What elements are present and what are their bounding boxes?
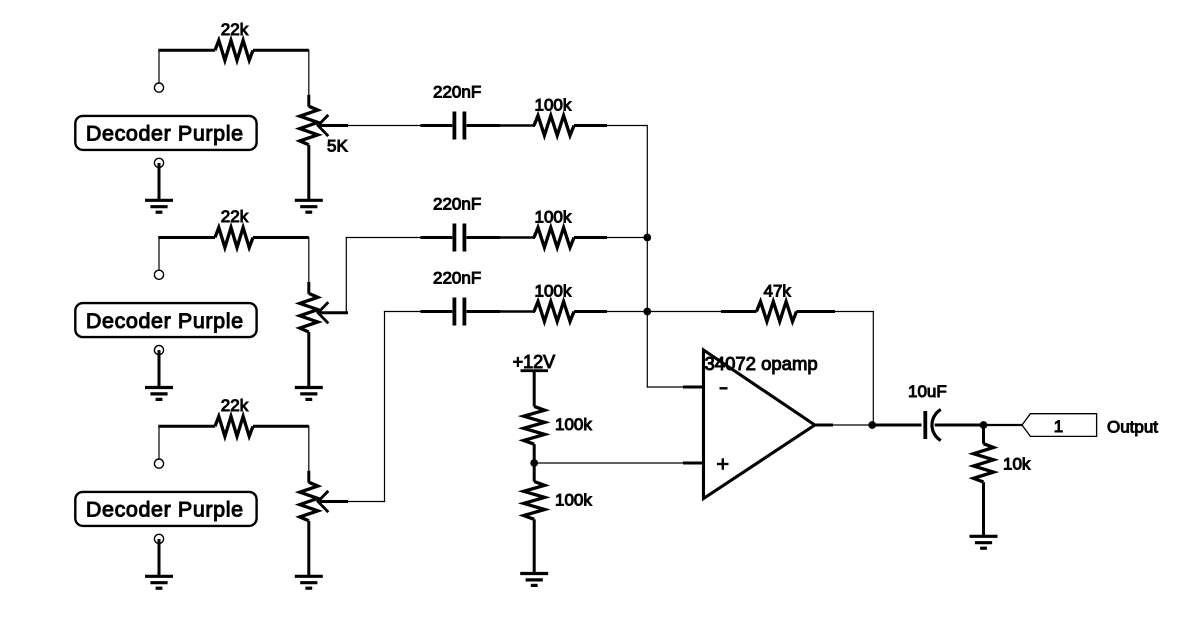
terminal circle ch3 top — [154, 459, 163, 468]
label U1 minus — [720, 387, 728, 389]
svg-text:100k: 100k — [535, 281, 572, 300]
wire pot VR1 to ground — [307, 145, 310, 201]
resistor R6 100k — [534, 302, 608, 322]
wire wiper1 to C1 — [348, 125, 421, 127]
label +12V — [513, 352, 556, 372]
wire R7 to output node — [835, 312, 873, 426]
ground R10 — [970, 536, 998, 548]
wire C2 to R5 — [500, 236, 534, 238]
ground decoder3 — [145, 576, 173, 588]
label C3 value 220nF — [433, 269, 481, 288]
decoder block 1 — [75, 116, 256, 150]
wire wiper2 riser — [346, 238, 420, 313]
wire C1 to R4 — [500, 124, 534, 126]
svg-text:220nF: 220nF — [433, 83, 481, 102]
svg-text:Decoder Purple: Decoder Purple — [86, 122, 244, 146]
wire pot VR3 to ground — [307, 521, 310, 577]
svg-text:47k: 47k — [764, 282, 792, 301]
wire R4 to bus — [607, 125, 647, 127]
svg-text:220nF: 220nF — [433, 195, 481, 214]
label R3 value 22k — [221, 396, 249, 415]
svg-text:1: 1 — [1054, 417, 1063, 436]
wire wiper VR2 — [318, 311, 349, 314]
resistor R9 100k — [524, 482, 545, 520]
junction node bus row2 — [643, 234, 651, 242]
wire node to connector — [984, 424, 1023, 426]
wire R8 to node — [533, 444, 536, 463]
wire wiper VR1 — [318, 124, 349, 127]
wire bias node to plus input — [534, 462, 683, 464]
decoder block 2 — [75, 303, 256, 337]
wire U1 output to node — [833, 424, 872, 426]
wire node to R10 — [982, 425, 985, 444]
wire input stub ch1 — [158, 50, 160, 83]
wire decoder2 to ground — [158, 350, 161, 387]
label R1 value 22k — [221, 20, 249, 39]
svg-text:100k: 100k — [555, 490, 592, 509]
label C2 value 220nF — [433, 195, 481, 214]
wire R9 to ground — [533, 519, 536, 573]
resistor R10 10k — [974, 444, 994, 482]
label R6 value 100k — [535, 281, 572, 300]
svg-text:100k: 100k — [535, 207, 572, 226]
wire node to R7 — [647, 311, 721, 313]
junction node bias — [530, 459, 538, 467]
label C4 value 10uF — [908, 382, 947, 401]
svg-text:+12V: +12V — [513, 352, 556, 372]
ground pot VR1 — [295, 200, 323, 212]
wire pot VR2 to ground — [307, 332, 310, 388]
svg-text:5K: 5K — [327, 137, 348, 156]
svg-text:22k: 22k — [221, 396, 249, 415]
svg-text:220nF: 220nF — [433, 269, 481, 288]
wire R2 to pot VR2 — [308, 238, 310, 294]
wiper arrow VR2 — [318, 302, 328, 323]
resistor R4 100k — [534, 116, 608, 136]
ground bias divider — [520, 574, 548, 586]
capacitor C2 220nF — [421, 224, 501, 252]
svg-text:Decoder Purple: Decoder Purple — [86, 309, 244, 333]
resistor R5 100k — [534, 228, 608, 248]
wire decoder3 to ground — [158, 539, 161, 576]
wire input stub ch2 — [158, 238, 160, 271]
svg-text:Decoder Purple: Decoder Purple — [86, 498, 244, 522]
wire input stub ch3 — [158, 426, 160, 459]
label decoder block 3 — [86, 498, 244, 522]
label VR1 value 5K — [327, 137, 348, 156]
label R9 value 100k — [555, 490, 592, 509]
capacitor C1 220nF — [421, 112, 501, 140]
wire +12V to R8 — [533, 371, 536, 407]
resistor R7 47k — [721, 302, 835, 322]
wire bus to inverting input — [647, 312, 683, 388]
label R10 value 10k — [1003, 455, 1031, 474]
wire R6 to bus — [607, 311, 647, 313]
label J1 pin 1 — [1054, 417, 1063, 436]
wire C3 to R6 — [500, 310, 534, 312]
potentiometer VR2 — [300, 293, 318, 332]
wire summing bus — [646, 126, 648, 312]
resistor R2 22k — [158, 228, 308, 248]
ground pot VR2 — [295, 388, 323, 400]
junction node bus row3 — [643, 308, 651, 316]
wire node to R9 — [533, 463, 536, 482]
terminal circle ch3 bottom — [154, 534, 163, 543]
resistor R8 100k — [524, 406, 545, 444]
svg-text:100k: 100k — [535, 95, 572, 114]
junction node output — [980, 421, 988, 429]
resistor R1 22k — [158, 40, 308, 60]
wire R3 to pot VR3 — [308, 426, 310, 482]
label U1 plus — [717, 458, 729, 470]
label R4 value 100k — [535, 95, 572, 114]
wire R10 to ground — [982, 482, 985, 536]
terminal circle ch1 bottom — [154, 158, 163, 167]
pin U1 inverting input — [683, 386, 704, 389]
wire R5 to bus — [607, 237, 647, 239]
svg-text:Output: Output — [1107, 417, 1158, 436]
svg-text:10uF: 10uF — [908, 382, 947, 401]
label R8 value 100k — [555, 415, 592, 434]
label R5 value 100k — [535, 207, 572, 226]
potentiometer VR1 — [300, 106, 318, 145]
connector J1 output flag — [1022, 414, 1097, 437]
wire decoder1 to ground — [158, 163, 161, 200]
ground decoder2 — [145, 388, 173, 400]
svg-text:22k: 22k — [221, 207, 249, 226]
label decoder block 1 — [86, 122, 244, 146]
ground pot VR3 — [295, 576, 323, 588]
capacitor C3 220nF — [421, 298, 501, 326]
op-amp U1 — [704, 350, 815, 499]
svg-text:100k: 100k — [555, 415, 592, 434]
svg-text:10k: 10k — [1003, 455, 1031, 474]
power rail +12V bar — [521, 369, 549, 372]
ground decoder1 — [145, 200, 173, 212]
wire wiper3 riser — [348, 312, 421, 502]
wire wiper VR3 — [318, 500, 349, 503]
label R7 value 47k — [764, 282, 792, 301]
label decoder block 2 — [86, 309, 244, 333]
pin U1 non-inverting input — [683, 462, 704, 465]
wire R1 to pot VR1 — [308, 50, 310, 106]
label R2 value 22k — [221, 207, 249, 226]
terminal circle ch1 top — [154, 83, 163, 92]
capacitor C4 10uF — [872, 410, 958, 441]
resistor R3 22k — [158, 416, 308, 436]
wire C4 to output node — [958, 424, 984, 427]
terminal circle ch2 top — [154, 270, 163, 279]
label C1 value 220nF — [433, 83, 481, 102]
label U1 34072 opamp — [705, 353, 818, 374]
wiper arrow VR1 — [318, 115, 328, 136]
decoder block 3 — [75, 492, 256, 526]
junction node op-amp output — [868, 421, 876, 429]
wiper arrow VR3 — [318, 491, 328, 512]
svg-text:34072 opamp: 34072 opamp — [705, 353, 818, 374]
terminal circle ch2 bottom — [154, 346, 163, 355]
svg-text:22k: 22k — [221, 20, 249, 39]
pin U1 output — [815, 424, 833, 427]
label Output — [1107, 417, 1158, 436]
potentiometer VR3 — [300, 482, 318, 521]
